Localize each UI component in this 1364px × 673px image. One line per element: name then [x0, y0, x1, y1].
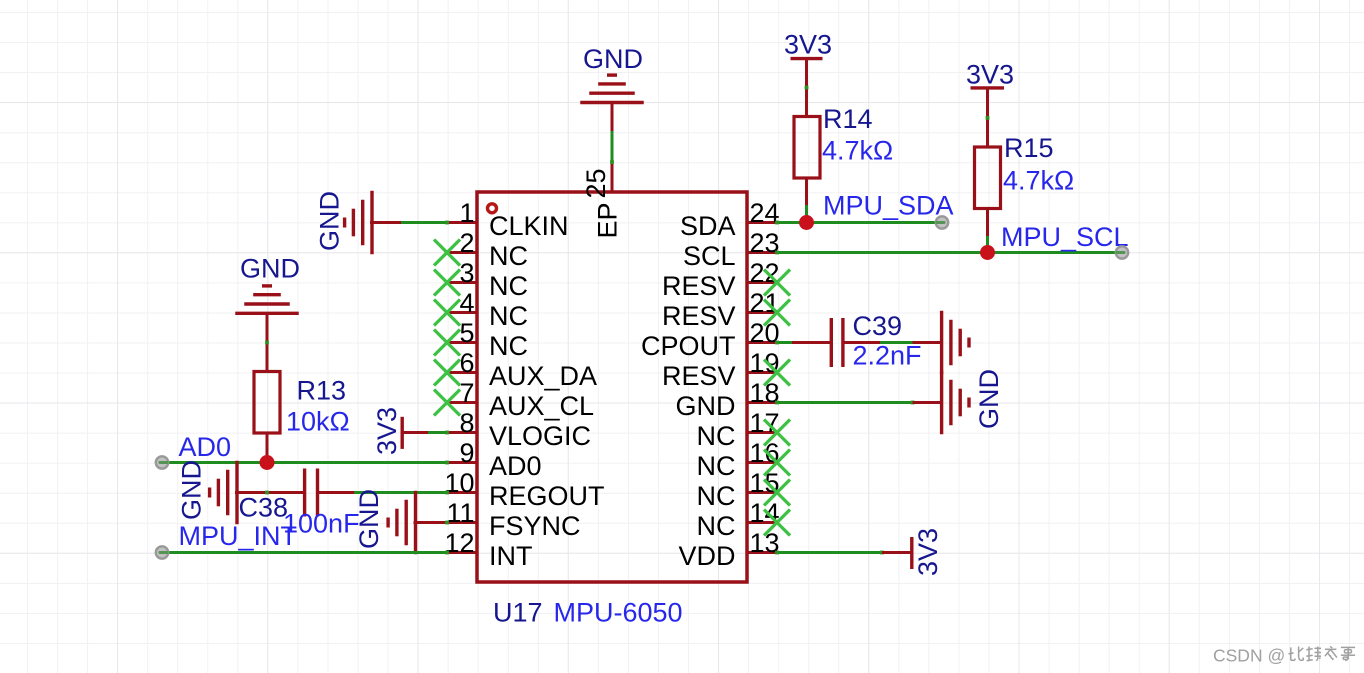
svg-text:FSYNC: FSYNC — [489, 511, 581, 541]
svg-text:NC: NC — [489, 271, 528, 301]
svg-text:NC: NC — [489, 241, 528, 271]
U17 pin 20 (CPOUT) — [641, 318, 780, 361]
svg-text:9: 9 — [459, 438, 474, 468]
U17 pin 1 (CLKIN) — [447, 198, 569, 241]
svg-text:AUX_DA: AUX_DA — [489, 361, 597, 391]
value 10kΩ — [286, 407, 350, 437]
power symbol 3V3 at pin 8 VLOGIC — [372, 407, 430, 455]
svg-text:C38: C38 — [239, 493, 289, 523]
port MPU_INT — [156, 546, 169, 558]
value MPU-6050 — [554, 598, 683, 628]
wire C38 to pin 10 REGOUT — [354, 491, 449, 495]
svg-text:R14: R14 — [823, 104, 873, 134]
svg-text:MPU-6050: MPU-6050 — [554, 598, 683, 628]
net label MPU_SDA — [823, 191, 954, 221]
svg-text:3V3: 3V3 — [372, 407, 402, 455]
wire net AD0 — [162, 461, 449, 465]
no-ERC cross on pin 7 — [434, 390, 460, 416]
U17 pin 10 (REGOUT) — [444, 468, 604, 511]
wire net MPU_SDA — [775, 221, 942, 225]
value 4.7kΩ — [822, 136, 893, 166]
U17 pin 3 (NC) — [447, 258, 528, 301]
resistor R15 — [975, 116, 1001, 238]
svg-text:AD0: AD0 — [489, 451, 542, 481]
svg-text:NC: NC — [697, 451, 736, 481]
junction at R13 / AD0 — [260, 455, 275, 470]
svg-text:U17: U17 — [493, 598, 543, 628]
U17 pin 22 (RESV) — [662, 258, 780, 301]
U17 pin 12 (INT) — [444, 528, 532, 571]
ground symbol at pin 11 FSYNC — [354, 489, 449, 554]
no-ERC cross on pin 3 — [434, 270, 460, 296]
no-ERC cross on pin 6 — [434, 360, 460, 386]
svg-text:4: 4 — [459, 288, 474, 318]
junction at R15 / SCL — [980, 245, 995, 260]
svg-text:R13: R13 — [297, 376, 347, 406]
svg-text:REGOUT: REGOUT — [489, 481, 605, 511]
port MPU_SDA — [936, 216, 949, 228]
svg-text:23: 23 — [750, 228, 780, 258]
wire 3V3 to pin 8 — [428, 431, 449, 435]
svg-text:2.2nF: 2.2nF — [853, 341, 922, 371]
ground symbol at pin 18 — [913, 369, 1005, 434]
wire net MPU_INT — [162, 551, 449, 555]
svg-text:NC: NC — [697, 421, 736, 451]
designator C38 — [239, 493, 289, 523]
capacitor C39 — [792, 318, 882, 367]
wire pin 13 VDD to 3V3 — [775, 551, 884, 555]
svg-text:AD0: AD0 — [179, 432, 232, 462]
svg-text:20: 20 — [750, 318, 780, 348]
svg-text:VDD: VDD — [678, 541, 735, 571]
svg-text:11: 11 — [446, 498, 474, 528]
designator R13 — [297, 376, 347, 406]
U17 pin 6 (AUX_DA) — [447, 348, 597, 391]
U17 pin 25 (EP) stub — [581, 162, 612, 199]
power symbol 3V3 at pin 13 VDD — [882, 528, 943, 576]
svg-text:3V3: 3V3 — [966, 60, 1014, 90]
port AD0 — [156, 456, 169, 468]
value 4.7kΩ — [1003, 166, 1074, 196]
ground symbol at C39 — [913, 311, 970, 375]
U17 pin 16 (NC) — [697, 438, 780, 481]
svg-text:GND: GND — [974, 369, 1004, 429]
designator R15 — [1004, 133, 1054, 163]
no-ERC cross on pin 22 — [764, 270, 790, 296]
net label MPU_SCL — [1001, 222, 1129, 252]
ground symbol at pin 1 CLKIN — [315, 191, 403, 255]
svg-text:GND: GND — [583, 44, 643, 74]
svg-text:CPOUT: CPOUT — [641, 331, 736, 361]
IC U17 MPU-6050 body — [477, 192, 747, 582]
svg-text:GND: GND — [240, 254, 300, 284]
svg-text:RESV: RESV — [662, 361, 736, 391]
svg-text:4.7kΩ: 4.7kΩ — [822, 136, 893, 166]
net label MPU_INT — [179, 521, 298, 551]
svg-text:6: 6 — [459, 348, 474, 378]
no-ERC cross on pin 2 — [434, 240, 460, 266]
U17 pin 18 (GND) — [676, 378, 780, 421]
svg-text:10kΩ: 10kΩ — [286, 407, 350, 437]
svg-text:12: 12 — [444, 528, 474, 558]
svg-text:CSDN @: CSDN @ — [1213, 646, 1285, 666]
wire pin 18 GND to ground — [775, 401, 914, 405]
svg-text:CLKIN: CLKIN — [489, 211, 569, 241]
wire C39 to ground — [880, 341, 914, 344]
U17 pin 23 (SCL) — [683, 228, 780, 271]
no-ERC cross on pin 15 — [764, 480, 790, 506]
svg-text:INT: INT — [489, 541, 533, 571]
capacitor C38 — [265, 469, 355, 517]
no-ERC cross on pin 5 — [434, 330, 460, 356]
U17 pin 7 (AUX_CL) — [447, 378, 594, 421]
svg-text:25: 25 — [581, 168, 611, 198]
svg-text:R15: R15 — [1004, 133, 1054, 163]
CSDN watermark — [1213, 646, 1355, 666]
svg-text:NC: NC — [489, 331, 528, 361]
svg-text:7: 7 — [459, 378, 474, 408]
svg-text:5: 5 — [459, 318, 474, 348]
svg-text:NC: NC — [697, 481, 736, 511]
U17 pin 8 (VLOGIC) — [447, 408, 591, 451]
svg-text:NC: NC — [697, 511, 736, 541]
U17 pin 14 (NC) — [697, 498, 780, 541]
wire R15 to SCL net — [986, 236, 989, 253]
port MPU_SCL — [1116, 246, 1129, 258]
svg-text:GND: GND — [177, 460, 207, 520]
wire net MPU_SCL — [775, 251, 1122, 255]
svg-text:2: 2 — [459, 228, 474, 258]
svg-text:C39: C39 — [853, 311, 903, 341]
U17 pin 13 (VDD) — [678, 528, 779, 571]
svg-text:MPU_SDA: MPU_SDA — [823, 191, 954, 221]
svg-text:GND: GND — [354, 489, 384, 549]
value 2.2nF — [853, 341, 922, 371]
svg-text:GND: GND — [676, 391, 736, 421]
svg-text:8: 8 — [459, 408, 474, 438]
wire ground to pin 1 — [401, 221, 449, 225]
svg-text:AUX_CL: AUX_CL — [489, 391, 594, 421]
svg-text:3: 3 — [459, 258, 474, 288]
wire EP to ground — [610, 131, 614, 164]
U17 pin 5 (NC) — [447, 318, 528, 361]
svg-text:GND: GND — [315, 191, 345, 251]
svg-text:24: 24 — [750, 198, 780, 228]
no-ERC cross on pin 17 — [764, 420, 790, 446]
designator C39 — [853, 311, 903, 341]
svg-text:MPU_INT: MPU_INT — [179, 521, 298, 551]
U17 pin 9 (AD0) — [447, 438, 542, 481]
svg-text:SDA: SDA — [680, 211, 736, 241]
resistor R14 — [794, 86, 820, 207]
no-ERC cross on pin 19 — [764, 360, 790, 386]
svg-text:3V3: 3V3 — [913, 528, 943, 576]
svg-text:SCL: SCL — [683, 241, 736, 271]
svg-text:18: 18 — [750, 378, 780, 408]
power symbol 3V3 above R15 — [966, 60, 1014, 118]
svg-text:4.7kΩ: 4.7kΩ — [1003, 166, 1074, 196]
power symbol 3V3 above R14 — [784, 30, 832, 89]
svg-text:EP: EP — [593, 202, 623, 238]
svg-text:MPU_SCL: MPU_SCL — [1001, 222, 1129, 252]
designator U17 — [493, 598, 543, 628]
no-ERC cross on pin 16 — [764, 450, 790, 476]
U17 pin 11 (FSYNC) — [446, 498, 580, 541]
U17 pin 19 (RESV) — [662, 348, 780, 391]
wire pin 20 CPOUT to C39 — [775, 341, 793, 345]
U17 pin 15 (NC) — [697, 468, 780, 511]
svg-text:3V3: 3V3 — [784, 30, 832, 60]
no-ERC cross on pin 21 — [764, 300, 790, 326]
svg-text:RESV: RESV — [662, 271, 736, 301]
no-ERC cross on pin 14 — [764, 510, 790, 536]
net label AD0 — [179, 432, 232, 462]
svg-text:1: 1 — [459, 198, 474, 228]
U17 pin 17 (NC) — [697, 408, 780, 451]
junction at R14 / SDA — [799, 215, 814, 230]
U17 pin name EP — [593, 202, 623, 238]
designator R14 — [823, 104, 873, 134]
ground symbol above R13 — [235, 254, 300, 344]
U17 pin 2 (NC) — [447, 228, 528, 271]
ground symbol left of C38 — [177, 460, 307, 524]
svg-text:10: 10 — [444, 468, 474, 498]
resistor R13 — [254, 341, 280, 463]
U17 pin 24 (SDA) — [680, 198, 780, 241]
wire R14 to SDA net — [805, 205, 808, 223]
svg-text:VLOGIC: VLOGIC — [489, 421, 591, 451]
U17 pin 21 (RESV) — [662, 288, 780, 331]
svg-text:NC: NC — [489, 301, 528, 331]
no-ERC cross on pin 4 — [434, 300, 460, 326]
ground symbol for EP pad — [580, 44, 644, 133]
svg-text:RESV: RESV — [662, 301, 736, 331]
value 100nF — [283, 509, 360, 539]
U17 pin 4 (NC) — [447, 288, 528, 331]
svg-text:13: 13 — [750, 528, 780, 558]
